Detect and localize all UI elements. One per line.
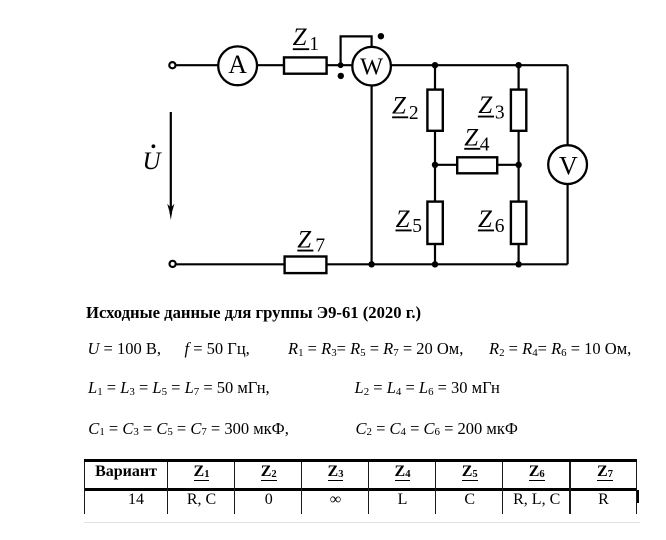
svg-text:Z: Z xyxy=(297,226,312,253)
label Z5 xyxy=(396,206,423,237)
svg-text:6: 6 xyxy=(495,216,505,237)
wattmeter polarity dot left xyxy=(338,73,344,79)
node junction: bottom rail / Z5 xyxy=(432,261,438,267)
resistor Z6 xyxy=(511,202,526,244)
svg-text:5: 5 xyxy=(412,216,422,237)
wire right rail: voltmeter to bottom xyxy=(566,184,568,264)
table column border 6 xyxy=(502,462,503,514)
data cell: Z3 value xyxy=(302,492,369,508)
resistor Z5 xyxy=(427,202,442,244)
svg-text:Z: Z xyxy=(464,124,479,151)
terminal input bottom xyxy=(170,261,176,267)
svg-text:Z: Z xyxy=(396,206,411,233)
node junction: bottom rail / Z6 xyxy=(515,261,521,267)
header cell: Z7 xyxy=(572,464,638,480)
wire bottom rail: terminal to Z7 xyxy=(176,263,285,265)
heading xyxy=(86,305,421,322)
svg-text:V: V xyxy=(559,151,578,180)
header cell: Z1 xyxy=(168,464,235,480)
table left border xyxy=(84,462,85,514)
wire top rail: terminal to ammeter xyxy=(176,64,219,66)
wire branch Z2: top rail to middle rail xyxy=(434,65,436,165)
node junction: bottom rail / wattmeter xyxy=(368,261,374,267)
table column border 3 xyxy=(301,462,302,514)
svg-text:A: A xyxy=(228,50,247,79)
label Z6 xyxy=(478,206,505,237)
table column border 1 xyxy=(167,462,168,514)
table column border 2 xyxy=(234,462,235,514)
label Z7 xyxy=(297,226,325,256)
label U dot phasor xyxy=(143,144,163,174)
header cell: Z2 xyxy=(235,464,302,480)
data cell: Z1 value xyxy=(168,492,235,508)
data cell: Z7 value xyxy=(571,492,637,508)
table column border 5 xyxy=(435,462,436,514)
header cell: Z6 xyxy=(503,464,570,480)
voltmeter V xyxy=(548,145,587,184)
label Z1 xyxy=(293,24,319,55)
source voltage arrow U xyxy=(167,112,174,220)
data cell: Z2 value xyxy=(235,492,302,508)
data cell: Z4 value xyxy=(369,492,436,508)
table column border 4 xyxy=(368,462,369,514)
table end-of-row mark xyxy=(637,490,639,504)
svg-text:Z: Z xyxy=(392,93,407,120)
node junction: bracket tap on top rail xyxy=(338,62,344,68)
label Z3 xyxy=(478,92,505,123)
label Z4 xyxy=(464,124,490,155)
wire branch Z6: middle rail to bottom rail xyxy=(517,165,519,264)
wire middle rail xyxy=(435,164,519,166)
table column border 7 xyxy=(569,462,570,514)
table bottom faint rule xyxy=(84,522,640,523)
table top border xyxy=(84,459,638,461)
wire branch Z3: top rail to middle rail xyxy=(517,65,519,165)
svg-text:1: 1 xyxy=(309,34,319,55)
svg-text:Z: Z xyxy=(293,24,308,51)
terminal input top xyxy=(169,62,175,68)
svg-text:Z: Z xyxy=(478,206,493,233)
resistor Z3 xyxy=(511,90,526,131)
resistor Z2 xyxy=(427,90,442,131)
parameters line 1 xyxy=(88,341,161,358)
data cell: Z5 value xyxy=(436,492,503,508)
svg-text:4: 4 xyxy=(480,134,490,155)
data cell: variant 14 xyxy=(104,492,168,508)
parameters line 2 xyxy=(88,380,270,397)
wire right rail: top to voltmeter xyxy=(566,65,568,145)
resistor Z7 xyxy=(285,257,327,274)
data cell: Z6 value xyxy=(503,492,570,508)
node junction: middle rail / Z2-Z5 xyxy=(432,162,438,168)
ammeter A xyxy=(218,46,257,85)
wattmeter W xyxy=(352,47,391,86)
node junction: middle rail / Z3-Z6 xyxy=(515,162,521,168)
wire top rail: ammeter to Z1 xyxy=(257,64,284,66)
header cell: Z3 xyxy=(302,464,369,480)
wire top rail: wattmeter to right wire xyxy=(391,64,568,66)
label Z2 xyxy=(392,93,419,124)
svg-text:7: 7 xyxy=(315,235,325,256)
node junction: top rail / Z2 xyxy=(432,62,438,68)
svg-text:Z: Z xyxy=(478,92,493,119)
wire bottom rail: Z7 to right rail xyxy=(326,263,567,265)
table header underline border xyxy=(84,488,638,490)
table right border xyxy=(636,462,637,514)
wire top rail: Z1 to wattmeter xyxy=(327,64,353,66)
wattmeter polarity dot top xyxy=(378,33,384,39)
node junction: top rail / Z3 xyxy=(515,62,521,68)
header cell: Вариант xyxy=(85,464,167,480)
svg-text:U: U xyxy=(143,148,163,175)
header cell: Z4 xyxy=(369,464,436,480)
wire wattmeter voltage bracket xyxy=(341,36,372,64)
wire branch Z5: middle rail to bottom rail xyxy=(434,165,436,264)
circuit schematic xyxy=(0,0,666,300)
svg-text:2: 2 xyxy=(409,103,419,124)
wire wattmeter down to bottom rail xyxy=(371,85,373,264)
resistor Z4 xyxy=(457,157,497,173)
resistor Z1 xyxy=(284,57,327,73)
header cell: Z5 xyxy=(436,464,503,480)
svg-text:W: W xyxy=(360,54,384,81)
svg-text:3: 3 xyxy=(495,103,505,124)
parameters line 3 xyxy=(88,421,289,438)
